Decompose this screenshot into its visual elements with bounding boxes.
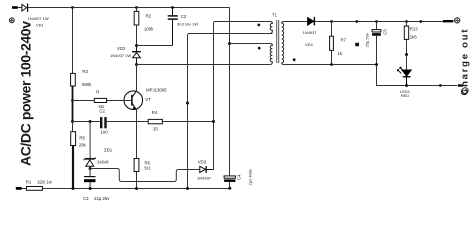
wire C3 to rail <box>89 182 91 188</box>
phase dot lower primary <box>258 47 261 50</box>
node R13 top <box>405 20 408 23</box>
wire output plus rail <box>315 21 443 23</box>
svg-text:100k: 100k <box>144 27 154 32</box>
svg-text:VD3: VD3 <box>198 160 207 165</box>
wire secondary bottom rail <box>284 65 457 86</box>
wire base lead <box>107 100 132 102</box>
svg-text:AC/DC power 100-240v: AC/DC power 100-240v <box>18 21 34 166</box>
svg-text:C4: C4 <box>237 174 242 180</box>
svg-text:2µ2 400v: 2µ2 400v <box>248 169 253 186</box>
wire secondary top to VD4 <box>284 21 308 23</box>
resistor R2 <box>134 11 139 25</box>
node LED bottom <box>405 84 408 87</box>
node rail-C2 <box>171 6 174 9</box>
LED1 <box>402 70 411 86</box>
svg-text:33: 33 <box>153 127 158 132</box>
node C5 top <box>375 20 378 23</box>
wire R2 bottom to C2 bottom <box>137 45 173 47</box>
svg-text:1N4007 1W: 1N4007 1W <box>28 16 49 21</box>
svg-text:MPJ13005: MPJ13005 <box>146 88 167 93</box>
svg-text:R5: R5 <box>79 136 85 141</box>
resistor R1 <box>27 187 43 191</box>
svg-text:2x6v8: 2x6v8 <box>97 160 109 165</box>
small rect symbol <box>355 43 359 46</box>
svg-text:R1: R1 <box>26 180 32 185</box>
svg-text:20k: 20k <box>79 143 87 148</box>
svg-text:680k: 680k <box>82 82 92 87</box>
LED arrows <box>397 67 403 73</box>
node x440 <box>439 84 442 87</box>
diode VD3 <box>200 166 214 173</box>
svg-text:VT: VT <box>145 97 151 102</box>
svg-text:22µ 25v: 22µ 25v <box>94 196 110 201</box>
svg-text:1N4937: 1N4937 <box>303 30 318 35</box>
node C5 bottom corner <box>375 63 378 66</box>
resistor R base <box>94 98 106 102</box>
wire emitter <box>136 110 138 159</box>
wire aux winding top corner <box>214 22 271 170</box>
node mystery on ground return <box>186 102 189 105</box>
node ZD1 tap <box>89 120 92 123</box>
svg-text:1N4937: 1N4937 <box>197 176 212 181</box>
diode VD1 <box>22 4 28 12</box>
node VD2/collector <box>135 63 138 66</box>
wire top rail to VD1 <box>18 7 22 9</box>
wire top rail <box>28 7 229 9</box>
node R7 bottom <box>330 63 333 66</box>
wire feedback line <box>73 121 214 123</box>
svg-text:VD1: VD1 <box>36 23 45 28</box>
svg-text:1k5: 1k5 <box>410 35 418 40</box>
node ZD1/C3 <box>89 167 92 170</box>
diode VD2 <box>132 46 141 65</box>
resistor R3 <box>71 73 76 86</box>
wire R left lead <box>73 100 95 102</box>
wire top rail corner down to C4 <box>229 8 231 176</box>
transformer core <box>277 20 279 63</box>
wire ZD1 to C3 <box>89 169 91 177</box>
phase dot secondary <box>293 58 296 61</box>
node base-R tap <box>71 99 74 102</box>
svg-text:ZD1: ZD1 <box>104 148 113 153</box>
resistor R13 <box>406 22 408 71</box>
capacitor C2 base <box>101 117 105 128</box>
svg-text:C3: C3 <box>83 196 89 201</box>
svg-text:3n3 1kv 1W: 3n3 1kv 1W <box>177 22 198 27</box>
output plus stub <box>443 20 453 22</box>
wire collector rail to transformer lower winding <box>137 64 271 66</box>
capacitor C5 <box>376 22 378 65</box>
capacitor C4 <box>224 176 235 178</box>
svg-text:R3: R3 <box>82 69 88 74</box>
node feedback wire <box>71 120 74 123</box>
node rail C4 <box>228 187 231 190</box>
svg-text:VD2: VD2 <box>117 46 126 51</box>
node R2/VD2/C2 <box>135 44 138 47</box>
transformer T1 lower primary winding <box>270 44 272 65</box>
node rail R5 <box>72 187 75 190</box>
zener ZD1 <box>84 157 96 166</box>
output minus stub <box>458 84 463 86</box>
resistor R6 <box>136 172 138 189</box>
wire R2 bottom lead <box>136 25 138 46</box>
node rail-R3 <box>71 6 74 9</box>
wire to R5 <box>72 122 74 132</box>
svg-text:C5: C5 <box>383 29 388 35</box>
svg-text:T1: T1 <box>272 13 278 18</box>
AC input terminal plus <box>9 18 14 23</box>
svg-text:25µ 50v: 25µ 50v <box>364 33 369 47</box>
node primary top <box>228 42 231 45</box>
wire ZD1 node to VD3 anode <box>90 169 200 182</box>
wire ZD1 branch <box>89 122 91 159</box>
node x356 <box>355 20 358 23</box>
wire bottom ground rail <box>42 188 230 190</box>
svg-text:R4: R4 <box>152 110 158 115</box>
wire aux winding bottom return <box>188 34 273 189</box>
node rail ground return <box>186 187 189 190</box>
svg-text:R2: R2 <box>146 14 152 19</box>
svg-text:VD4: VD4 <box>305 42 314 47</box>
wire R3 top lead <box>72 8 74 74</box>
svg-text:R: R <box>96 90 99 95</box>
capacitor C3 <box>84 177 96 183</box>
svg-text:Charge out: Charge out <box>460 29 471 96</box>
node R4 right <box>212 120 215 123</box>
capacitor C2 <box>168 8 178 46</box>
AC input stub top-left <box>12 6 18 9</box>
svg-text:RED: RED <box>401 93 410 98</box>
node rail C3 <box>89 187 92 190</box>
transistor VT <box>124 91 143 110</box>
wire R2 top lead <box>136 8 138 12</box>
node rail-R2 <box>135 6 138 9</box>
node R7 top <box>330 20 333 23</box>
AC input stub bottom-left <box>16 187 22 190</box>
resistor R7 <box>331 22 333 65</box>
svg-text:1N4007 1W: 1N4007 1W <box>110 53 131 58</box>
transformer secondary winding <box>282 22 284 65</box>
svg-text:5r1: 5r1 <box>144 166 151 171</box>
node x420 <box>419 20 422 23</box>
output minus terminal <box>462 88 468 94</box>
output plus terminal <box>455 18 460 23</box>
resistor R4 <box>148 119 162 123</box>
phase dot upper primary <box>257 24 260 27</box>
wire R3 bottom thick lead <box>72 86 74 122</box>
wire collector <box>136 65 138 91</box>
svg-text:C2: C2 <box>99 109 105 114</box>
resistor R5 <box>71 132 76 146</box>
svg-text:C2: C2 <box>181 14 187 19</box>
transformer T1 upper primary winding <box>270 22 272 34</box>
node rail R6 <box>135 187 138 190</box>
wire to lower primary winding <box>230 43 271 45</box>
wire stub to R1 <box>22 188 27 190</box>
svg-text:1n0: 1n0 <box>101 130 109 135</box>
svg-text:R7: R7 <box>341 38 347 43</box>
svg-text:1Ω0 1w: 1Ω0 1w <box>37 179 53 184</box>
wire R5 bottom thick lead <box>72 146 74 189</box>
node mystery R13-LED <box>405 53 408 56</box>
svg-text:R13: R13 <box>410 27 418 32</box>
diode VD4 <box>308 17 315 26</box>
svg-text:R6: R6 <box>145 160 151 165</box>
